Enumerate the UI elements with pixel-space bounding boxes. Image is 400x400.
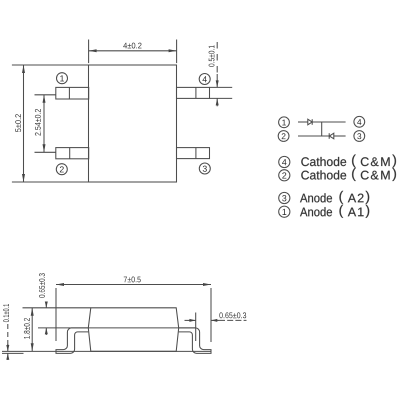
pin 2 — [56, 148, 89, 159]
dimension 4±0.2 body width — [89, 40, 177, 64]
side view right lead — [179, 328, 211, 354]
pin list row 1 Anode — [279, 205, 369, 218]
pin list row 4 Cathode — [279, 155, 396, 168]
pin list row 3 Anode — [279, 191, 369, 204]
pin list row 2 Cathode — [279, 168, 396, 181]
dimension 7±0.5 overall length — [56, 277, 211, 343]
pin 1 number — [57, 73, 68, 84]
pin 3 number — [199, 163, 210, 174]
dimension 5±0.2 body height — [12, 65, 89, 182]
dimension 0.65±0.3 right foot length — [185, 312, 247, 341]
diode D2 — [329, 133, 334, 139]
side view left lead — [56, 328, 88, 354]
wire pin2 to diode D2 — [298, 135, 329, 137]
schematic node 1 — [279, 117, 290, 128]
side view parting line — [71, 327, 195, 329]
pin 4 — [177, 87, 210, 98]
wire diode D1 to pin 4 — [312, 121, 345, 123]
side view seating plane line — [2, 350, 211, 352]
dimension 0.1±0.1 standoff — [2, 304, 24, 360]
dimension 2.54±0.2 pin pitch — [35, 95, 56, 153]
dimension 0.5±0.1 pin width — [209, 42, 233, 106]
dimension 1.8±0.2 overall height — [24, 308, 34, 352]
dimension 0.65±0.3 left lead exit — [23, 273, 91, 335]
side view body — [88, 308, 178, 352]
pin 1 — [56, 87, 89, 99]
wire pin1 to diode D1 — [298, 121, 308, 123]
wire diode D2 to pin 3 — [334, 135, 346, 137]
wire common tie — [321, 122, 323, 136]
schematic node 2 — [278, 131, 289, 142]
pin 4 number — [199, 74, 210, 85]
top view package body — [89, 65, 177, 182]
diode D1 — [308, 119, 312, 125]
schematic node 3 — [354, 131, 365, 142]
pin 2 number — [56, 164, 67, 175]
pin 3 — [177, 148, 210, 159]
schematic node 4 — [354, 116, 365, 127]
